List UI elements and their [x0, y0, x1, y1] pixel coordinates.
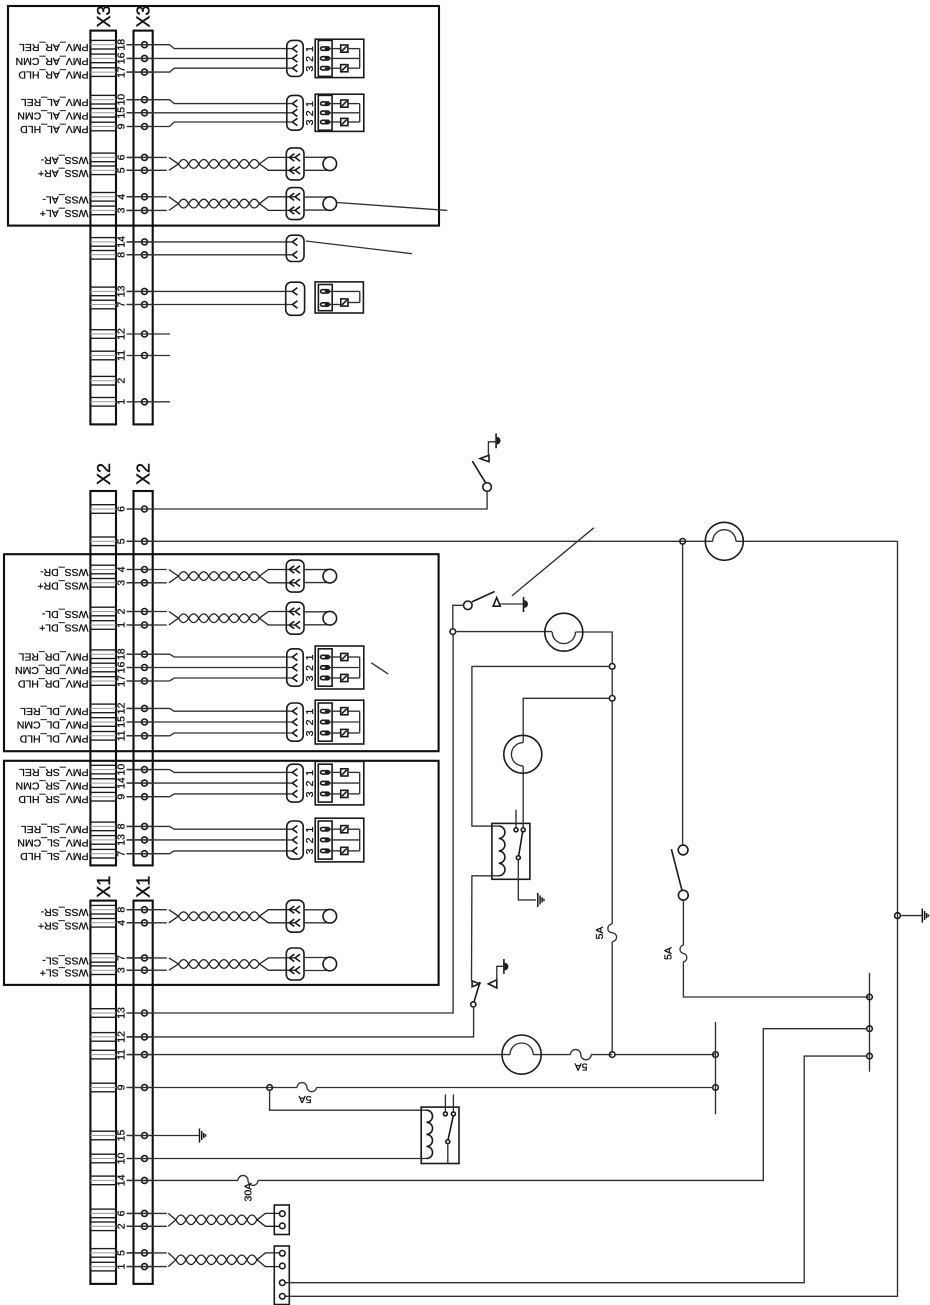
junction H (relay K2 tap)	[267, 1085, 273, 1091]
junction trunk/relay-K1 feed	[867, 1026, 873, 1032]
X3 pin 9 contact circle	[127, 124, 153, 130]
connector X3 harness-side bar	[90, 31, 116, 425]
svg-text:1: 1	[116, 1264, 128, 1270]
net label PMV_DL_REL	[20, 705, 88, 717]
wire node B up to switch S2	[453, 605, 464, 629]
label X3 (ECU side)	[134, 5, 154, 27]
X2 pin number 3	[116, 580, 128, 586]
relay K2 blade	[448, 1116, 453, 1140]
X2 pin 1 contact circle	[127, 622, 153, 628]
net label WSS_DL-	[41, 608, 88, 620]
X1 pin 4 crimp cell	[90, 919, 116, 928]
leader line (diagnostic)	[512, 528, 594, 596]
wire X1 pin 2	[127, 1225, 167, 1227]
svg-text:PMV_SL_CMN: PMV_SL_CMN	[17, 836, 88, 848]
wire X3 pin 10 to valve connector	[127, 100, 293, 104]
wire X3 pin 6 to twisted pair	[127, 156, 167, 158]
svg-text:9: 9	[116, 1084, 128, 1090]
solenoid valve block PMV_SR (steer right modulator)	[304, 761, 364, 805]
svg-text:X3: X3	[134, 5, 154, 27]
net label PMV_SR_CMN	[16, 780, 89, 792]
twisted pair WSS_AL	[169, 197, 295, 211]
X3 pin 13 crimp cell	[90, 287, 116, 296]
X1 pin number 14	[116, 1174, 128, 1186]
svg-text:3: 3	[116, 967, 128, 973]
svg-text:13: 13	[116, 834, 128, 846]
X1 pin number 15	[116, 1130, 128, 1142]
svg-text:2: 2	[304, 837, 316, 843]
svg-text:5: 5	[116, 538, 128, 544]
junction E2	[713, 1085, 719, 1091]
net label PMV_DR_REL	[18, 651, 88, 663]
svg-text:4: 4	[116, 920, 128, 926]
wire X1 pin 9 to fuse F4	[127, 1087, 298, 1089]
relay K1 coil	[499, 826, 505, 876]
wire X2 pin 15 to valve connector	[127, 721, 293, 723]
net label PMV_SR_REL	[19, 766, 89, 778]
relay K2 feed stub b	[452, 1095, 454, 1112]
connector PMV_DR plug	[287, 649, 303, 686]
connector X2 ECU-side bar	[134, 491, 153, 865]
wheel-speed sensor WSS_DL	[304, 611, 337, 625]
svg-text:X2: X2	[94, 463, 114, 485]
X1 pin 14 contact circle	[127, 1177, 153, 1183]
svg-text:12: 12	[116, 1031, 128, 1043]
ground symbol (X1 pin 15)	[200, 1129, 206, 1143]
svg-text:PMV_AL_REL: PMV_AL_REL	[21, 96, 89, 108]
X2 pin 2 contact circle	[127, 609, 153, 615]
X2 pin number 1	[116, 622, 128, 628]
label X3 (harness side)	[94, 5, 114, 27]
X1 pin number 12	[116, 1031, 128, 1043]
switch S3 fixed contact	[472, 981, 479, 987]
X2 pin number 12	[116, 702, 128, 714]
wire lamp L2 to trunk C	[575, 632, 612, 664]
junction D (lamp rail/trunk C)	[609, 1052, 615, 1058]
svg-text:11: 11	[116, 730, 128, 741]
connector PMV_AR plug	[287, 40, 303, 76]
X2 pin number 2	[116, 608, 128, 614]
X1 pin number 1	[116, 1264, 128, 1270]
junction C1	[609, 664, 615, 670]
X1 pin number 11	[116, 1049, 128, 1060]
wire X3 pin 3 to twisted pair	[127, 209, 167, 211]
switch S2 terminal	[464, 601, 473, 610]
net label PMV_AR_HLD	[18, 69, 88, 81]
svg-text:PMV_DL_REL: PMV_DL_REL	[20, 705, 88, 717]
wire X2 pin 7 to valve connector	[127, 851, 293, 854]
svg-text:15: 15	[116, 716, 128, 728]
wire X1 pin 15 to ground	[127, 1135, 199, 1137]
X3 pin 18 contact circle	[127, 42, 153, 48]
wire ground tap	[900, 915, 922, 917]
net label PMV_SL_HLD	[20, 850, 89, 862]
svg-text:6: 6	[116, 506, 128, 512]
X3 pin 3 contact circle	[127, 207, 153, 213]
wire H to relay K2 coil	[270, 1090, 427, 1110]
lamp L1	[705, 522, 743, 560]
svg-text:X1: X1	[134, 876, 154, 898]
X1 pin 13 crimp cell	[90, 1009, 116, 1018]
X2 pin 6 crimp cell	[90, 505, 116, 514]
net label PMV_SR_HLD	[18, 793, 88, 805]
X3 pin 1 crimp cell	[90, 398, 116, 407]
svg-text:13: 13	[116, 285, 128, 297]
svg-text:10: 10	[116, 94, 128, 106]
relay K1 common stub	[515, 810, 517, 828]
X1 pin 5 crimp cell	[90, 1249, 116, 1258]
X1 pin 9 crimp cell	[90, 1083, 116, 1092]
connector J2	[274, 1246, 289, 1305]
net label WSS_AL+	[40, 207, 89, 219]
X1 pin 13 contact circle	[127, 1010, 153, 1016]
X3 pin 16 contact circle	[127, 55, 153, 61]
svg-text:12: 12	[116, 328, 128, 340]
X1 pin 12 crimp cell	[90, 1033, 116, 1042]
X3 pin 7 crimp cell	[90, 300, 116, 309]
X3 pin number 14	[116, 236, 128, 248]
connector WSS_DL plug	[286, 602, 304, 634]
X3 pin number 1	[116, 399, 128, 405]
svg-text:WSS_SR+: WSS_SR+	[38, 919, 88, 931]
X1 pin 3 crimp cell	[90, 966, 116, 975]
net label WSS_SR-	[40, 906, 88, 918]
wire X1 pin 7	[127, 957, 167, 959]
svg-text:11: 11	[116, 1049, 128, 1060]
junction node A	[680, 539, 686, 545]
connector J2 pin 1	[280, 1251, 286, 1257]
X2 pin 3 crimp cell	[90, 579, 116, 588]
X2 pin 13 crimp cell	[90, 836, 116, 845]
connector PMV_SL plug	[287, 821, 303, 859]
X3 pin number 17	[116, 66, 128, 78]
label X2 (ECU side)	[134, 463, 154, 485]
ECU box (X3 section)	[8, 6, 439, 226]
svg-text:5A: 5A	[663, 947, 675, 960]
svg-text:WSS_AL+: WSS_AL+	[40, 207, 89, 219]
fuse F3 5A	[570, 1049, 591, 1059]
relay K1 blade	[519, 832, 523, 856]
lamp L3 filament arc	[511, 743, 523, 766]
svg-text:30A: 30A	[243, 1183, 255, 1202]
X3 pin 8 contact circle	[127, 252, 153, 258]
net label PMV_AR_CMN	[16, 55, 89, 67]
net label PMV_SL_REL	[21, 823, 89, 835]
wire F2 to lamp L4 rail	[611, 942, 613, 1052]
svg-text:1: 1	[304, 770, 316, 776]
X1 pin number 6	[116, 1210, 128, 1216]
net label WSS_SL+	[40, 967, 89, 979]
svg-text:12: 12	[116, 702, 128, 714]
wire trunk C to fuse F2	[611, 701, 613, 924]
wire F1 to right distribution	[683, 962, 869, 998]
relay K2 coil	[427, 1110, 433, 1158]
wire X2 pin 1	[127, 624, 167, 626]
svg-text:WSS_DR-: WSS_DR-	[40, 566, 89, 578]
svg-text:5A: 5A	[575, 1060, 588, 1072]
X2 pin number 13	[116, 834, 128, 846]
svg-text:2: 2	[304, 719, 316, 725]
leader line from PMV_DR block	[371, 663, 388, 674]
svg-text:2: 2	[304, 56, 316, 62]
wire X3 pin 4 to twisted pair	[127, 196, 167, 198]
connector X1 ECU-side bar	[134, 901, 153, 1284]
X3 pin number 12	[116, 328, 128, 340]
X2 pin 16 contact circle	[127, 665, 153, 671]
switch S2 blade	[472, 592, 495, 602]
wire X3 pin 14	[127, 241, 293, 243]
lamp L4	[502, 1035, 541, 1074]
X3 pin 5 crimp cell	[90, 166, 116, 175]
X3 pin 1 contact circle	[127, 399, 153, 405]
connector WSS_AL plug	[286, 188, 304, 220]
wire X3 pin 5 to twisted pair	[127, 169, 167, 171]
X2 pin 10 crimp cell	[90, 765, 116, 774]
svg-text:WSS_DL-: WSS_DL-	[41, 608, 88, 620]
X3 pin 12 crimp cell	[90, 330, 116, 339]
connector WSS_DR plug	[286, 560, 304, 592]
wheel-speed sensor WSS_SL	[304, 957, 337, 971]
svg-text:5: 5	[116, 167, 128, 173]
junction F1/trunk	[867, 994, 873, 1000]
svg-text:PMV_AR_HLD: PMV_AR_HLD	[18, 69, 88, 81]
solenoid valve block PMV_DL (drive left modulator)	[304, 700, 364, 744]
connector J1 pin 2	[280, 1223, 286, 1229]
X2 pin 5 crimp cell	[90, 537, 116, 546]
wire X2 pin 16 to valve connector	[127, 667, 293, 669]
net label PMV_AL_HLD	[20, 123, 89, 135]
svg-text:PMV_SR_HLD: PMV_SR_HLD	[18, 793, 88, 805]
svg-text:WSS_AL-: WSS_AL-	[42, 193, 89, 205]
connector WSS_SL plug	[286, 948, 304, 980]
junction trunk/connector feed	[867, 1053, 873, 1059]
X1 pin 3 contact circle	[127, 967, 153, 973]
junction C2	[609, 696, 615, 702]
svg-text:15: 15	[116, 107, 128, 119]
X2 pin 11 contact circle	[127, 733, 153, 739]
X2 pin number 11	[116, 730, 128, 741]
relay K2 feed stub a	[444, 1095, 446, 1112]
X2 pin number 5	[116, 538, 128, 544]
svg-text:1: 1	[116, 399, 128, 405]
X3 pin 18 crimp cell	[90, 40, 116, 49]
svg-text:18: 18	[116, 648, 128, 660]
svg-text:3: 3	[116, 207, 128, 213]
net label PMV_DR_HLD	[17, 678, 88, 690]
X3 pin 4 contact circle	[127, 194, 153, 200]
X1 pin 5 contact circle	[127, 1250, 153, 1256]
X2 pin 15 crimp cell	[90, 718, 116, 727]
relay K1 contact b	[521, 828, 525, 832]
svg-text:16: 16	[116, 662, 128, 674]
relay K2 contact a	[443, 1112, 447, 1116]
svg-text:1: 1	[304, 827, 316, 833]
switch S4 upper terminal	[678, 845, 688, 855]
svg-text:6: 6	[116, 1210, 128, 1216]
svg-text:PMV_SL_HLD: PMV_SL_HLD	[20, 850, 89, 862]
wire F5 to distribution trunk	[258, 1029, 867, 1181]
relay K2 contact c	[446, 1140, 450, 1144]
label fuse F5 30A	[243, 1183, 255, 1202]
wire lamp L3 to relay contact	[522, 766, 524, 828]
X2 pin 15 contact circle	[127, 719, 153, 725]
wheel-speed sensor WSS_SR	[304, 909, 337, 923]
X3 pin 9 crimp cell	[90, 122, 116, 131]
wire X2 pin 9 to valve connector	[127, 794, 293, 797]
wire right trunk (battery feed)	[285, 541, 897, 1296]
wire X3 pin 13	[127, 290, 293, 292]
wire F4 to junction E2	[317, 1087, 713, 1089]
X2 pin 9 crimp cell	[90, 792, 116, 801]
svg-text:1: 1	[304, 101, 316, 107]
X1 pin 4 contact circle	[127, 920, 153, 926]
X3 pin 11 contact circle	[127, 353, 153, 359]
switch S2 actuator link	[500, 603, 523, 605]
wire X2 pin 17 to valve connector	[127, 678, 293, 681]
lamp L2 filament arc	[552, 632, 575, 644]
X1 pin 12 contact circle	[127, 1034, 153, 1040]
X2 pin 16 crimp cell	[90, 663, 116, 672]
X2 pin number 9	[116, 794, 128, 800]
svg-text:2: 2	[116, 608, 128, 614]
switch S3 terminal	[471, 1002, 476, 1007]
X3 pin number 5	[116, 167, 128, 173]
wire X2 pin 18 to valve connector	[127, 654, 293, 657]
leader line from 14/8 connector	[306, 241, 412, 254]
X1 pin 9 contact circle	[127, 1085, 153, 1091]
X1 pin 11 crimp cell	[90, 1050, 116, 1059]
X3 pin number 18	[116, 39, 128, 51]
net label WSS_DL+	[39, 622, 88, 634]
X3 pin number 3	[116, 207, 128, 213]
solenoid valve (X3 13/7)	[315, 282, 363, 313]
X3 pin 10 contact circle	[127, 97, 153, 103]
wire stub X3 pin 12	[153, 333, 170, 335]
svg-text:PMV_AL_HLD: PMV_AL_HLD	[20, 123, 89, 135]
X2 pin 12 contact circle	[127, 705, 153, 711]
junction node B	[450, 629, 456, 635]
svg-text:X1: X1	[94, 876, 114, 898]
connector J1 pin 1	[280, 1211, 286, 1217]
X3 pin 10 crimp cell	[90, 95, 116, 104]
X2 pin 5 contact circle	[127, 538, 153, 544]
net label WSS_DR-	[40, 566, 89, 578]
X3 pin 12 contact circle	[127, 331, 153, 337]
svg-text:10: 10	[116, 764, 128, 776]
svg-text:WSS_SR-: WSS_SR-	[40, 906, 88, 918]
wire X1 pin 8	[127, 909, 167, 911]
net label WSS_SR+	[38, 919, 88, 931]
label X1 (ECU side)	[134, 876, 154, 898]
wire X3 pin 7	[127, 304, 293, 306]
lamp L4 filament arc	[510, 1043, 533, 1055]
X1 pin 1 contact circle	[127, 1264, 153, 1270]
svg-text:3: 3	[304, 848, 316, 854]
X2 pin number 8	[116, 823, 128, 829]
net label WSS_SL-	[42, 954, 89, 966]
X2 pin 8 contact circle	[127, 823, 153, 829]
X1 pin 11 contact circle	[127, 1052, 153, 1058]
switch S3 actuator triangle	[488, 980, 497, 988]
net label PMV_SL_CMN	[17, 836, 88, 848]
connector J1	[274, 1205, 289, 1235]
svg-text:1: 1	[304, 654, 316, 660]
X2 pin 2 crimp cell	[90, 607, 116, 616]
X3 pin 13 contact circle	[127, 288, 153, 294]
X3 pin 2 crimp cell	[90, 376, 116, 385]
X3 pin 15 crimp cell	[90, 109, 116, 118]
lamp L1 filament arc	[713, 530, 736, 542]
X2 pin number 6	[116, 506, 128, 512]
X3 pin number 15	[116, 107, 128, 119]
label fuse F3 5A	[575, 1060, 588, 1072]
label X2 (harness side)	[94, 463, 114, 485]
X2 pin number 7	[116, 851, 128, 857]
svg-text:11: 11	[116, 350, 128, 361]
X3 pin number 16	[116, 52, 128, 64]
X3 pin 3 crimp cell	[90, 206, 116, 215]
wire X2 pin 11 to valve connector	[127, 733, 293, 736]
relay K2 box	[421, 1107, 459, 1163]
X2 pin 9 contact circle	[127, 794, 153, 800]
svg-text:2: 2	[304, 665, 316, 671]
X2 pin number 10	[116, 764, 128, 776]
svg-text:3: 3	[304, 675, 316, 681]
X3 pin 17 contact circle	[127, 69, 153, 75]
X3 pin number 9	[116, 123, 128, 129]
wire X2 pin 10 to valve connector	[127, 770, 293, 773]
X3 pin 14 crimp cell	[90, 238, 116, 247]
wire F3 to junction D	[591, 1054, 612, 1056]
connector J2 pin 2	[280, 1263, 286, 1269]
label fuse F2 5A	[594, 927, 606, 940]
X1 pin 15 contact circle	[127, 1133, 153, 1139]
X3 pin 17 crimp cell	[90, 68, 116, 77]
svg-text:14: 14	[116, 236, 128, 248]
X3 pin 11 crimp cell	[90, 351, 116, 360]
switch S2 actuator triangle	[493, 598, 500, 607]
switch S1 blade	[472, 461, 485, 482]
fuse F2 5A	[608, 924, 617, 942]
switch S4 blade	[671, 849, 682, 890]
wire X2 pin 12 to valve connector	[127, 708, 293, 711]
X3 pin 16 crimp cell	[90, 54, 116, 63]
X1 pin 1 crimp cell	[90, 1262, 116, 1271]
wire X2 pin 3	[127, 582, 167, 584]
solenoid valve block PMV_SL (steer left modulator)	[304, 818, 364, 862]
svg-text:1: 1	[304, 709, 316, 715]
svg-text:2: 2	[304, 781, 316, 787]
relay K1 contact a	[514, 828, 518, 832]
X1 pin 2 crimp cell	[90, 1222, 116, 1231]
X3 pin number 11	[116, 350, 128, 361]
connector X3 ECU-side bar	[134, 31, 153, 425]
wire X2 pin 8 to valve connector	[127, 826, 293, 829]
wire relay K1 coil return	[472, 876, 499, 981]
X2 pin 8 crimp cell	[90, 822, 116, 831]
svg-text:X2: X2	[134, 463, 154, 485]
svg-text:3: 3	[304, 730, 316, 736]
net label WSS_AR-	[40, 154, 88, 166]
X2 pin 18 crimp cell	[90, 650, 116, 659]
switch S2 pilot port	[524, 597, 529, 612]
wire stub X3 pin 1	[153, 401, 170, 403]
X2 pin 7 contact circle	[127, 851, 153, 857]
svg-text:WSS_SL+: WSS_SL+	[40, 967, 89, 979]
X3 pin 5 contact circle	[127, 167, 153, 173]
lamp L3	[504, 735, 542, 773]
net label PMV_AL_CMN	[17, 109, 88, 121]
